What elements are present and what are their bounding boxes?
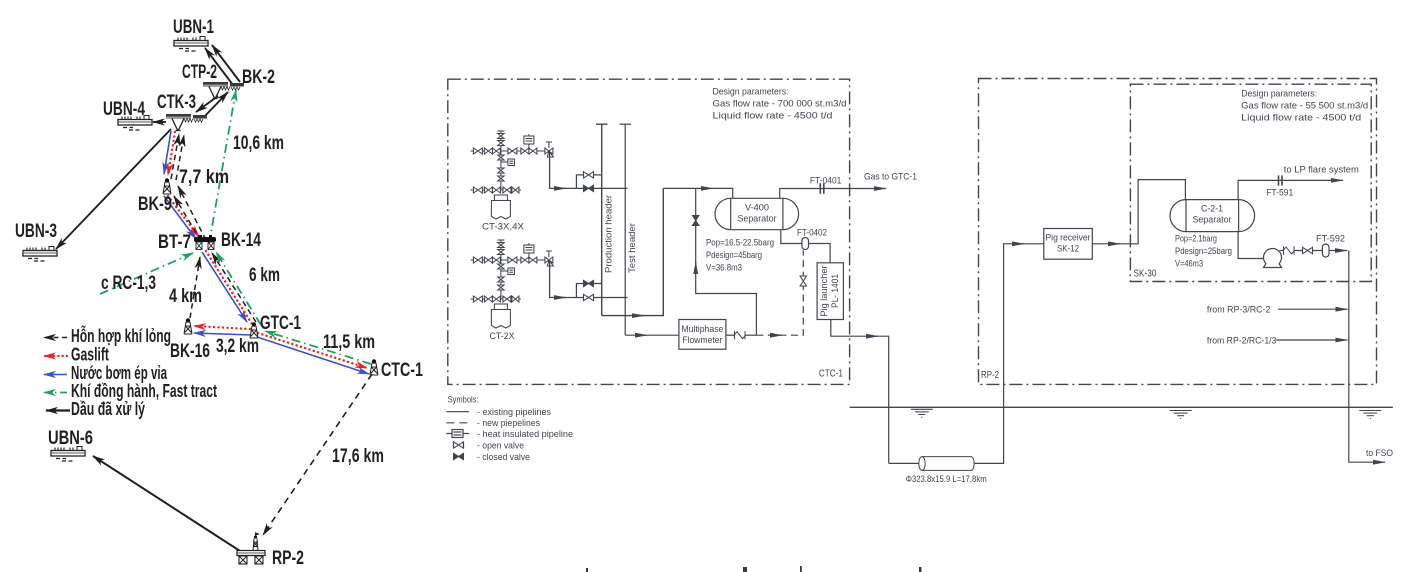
- wire multiphase return riser: [696, 188, 757, 335]
- legend open valve: [454, 442, 464, 448]
- node BK-16 derrick: [184, 318, 192, 334]
- wire BK-2 to UBN-1 line 2: [212, 45, 240, 82]
- svg-text:7,7 km: 7,7 km: [179, 167, 229, 188]
- svg-text:CTC-1: CTC-1: [381, 360, 423, 381]
- svg-text:UBN-6: UBN-6: [48, 428, 93, 449]
- wire BT-7 to GTC-1 red: [206, 251, 252, 324]
- svg-text:to LP flare system: to LP flare system: [1284, 165, 1359, 175]
- svg-text:CT-2X: CT-2X: [490, 331, 515, 341]
- wire pump discharge with break, valve, FT-592: [1280, 250, 1284, 252]
- svg-text:Symbols:: Symbols:: [448, 395, 479, 405]
- wire test header to multiphase flowmeter: [625, 334, 679, 336]
- valve closed on tree2 bypass: [584, 280, 594, 286]
- svg-text:from RP-3/RC-2: from RP-3/RC-2: [1207, 305, 1271, 315]
- wire BK-9 to CTK-3 dashed 2: [176, 135, 184, 180]
- svg-text:Φ323.8x15.9 L=17.8km: Φ323.8x15.9 L=17.8km: [906, 474, 987, 484]
- wire CTK-3 to UBN-4: [153, 121, 166, 123]
- wire CTK-3 to UBN-3: [56, 129, 171, 249]
- svg-text:C-2-1: C-2-1: [1201, 204, 1223, 214]
- FT-591 orifice: [1278, 175, 1280, 185]
- node GTC-1 derrick: [250, 322, 258, 338]
- wire BT-7 to BK-2 green 10.6km: [209, 90, 236, 244]
- svg-text:Separator: Separator: [1193, 215, 1232, 225]
- svg-text:Gas flow rate - 55 500 st.m3: Gas flow rate - 55 500 st.m3/d: [1241, 101, 1368, 111]
- node UBN-6 ship: [51, 447, 85, 462]
- christmas tree CT-2X: [471, 240, 554, 328]
- svg-text:Multiphase: Multiphase: [681, 324, 723, 334]
- wire GTC-1 to BK-16 red: [194, 326, 250, 329]
- legend closed valve: [454, 453, 464, 459]
- svg-text:6 km: 6 km: [249, 265, 280, 286]
- wire pig launcher outlet to sea line: [831, 320, 889, 464]
- svg-text:RP-2: RP-2: [981, 370, 999, 381]
- RP-2 battery limit box: [979, 79, 1377, 385]
- wire CTC-1 to GTC-1 green: [265, 331, 371, 364]
- svg-text:BK-2: BK-2: [242, 67, 275, 88]
- wire to FSO riser: [1349, 251, 1374, 463]
- water surface symbol 3: [1359, 411, 1381, 419]
- node BK-9 derrick: [163, 178, 171, 194]
- design parameters RP-2: [1241, 89, 1368, 123]
- node CTK-3 platform: [166, 114, 207, 131]
- valve closed on return riser: [693, 216, 699, 226]
- SK-30 battery limit box: [1130, 84, 1371, 281]
- wire BT-7 to BK-9 dashed 1: [174, 196, 201, 241]
- legend row 1: dashed black arrow: [44, 337, 67, 339]
- wire tree2 bypass stub: [576, 284, 601, 298]
- svg-text:Pop=2.1barg: Pop=2.1barg: [1175, 234, 1217, 244]
- svg-text:V=46m3: V=46m3: [1175, 259, 1203, 269]
- svg-text:SK-12: SK-12: [1057, 244, 1079, 254]
- svg-text:CT-3X,4X: CT-3X,4X: [482, 222, 524, 232]
- wire C-2-1 gas outlet to LP flare: [1238, 180, 1332, 199]
- svg-text:RP-2: RP-2: [272, 548, 304, 569]
- svg-text:Dầu đã xử lý: Dầu đã xử lý: [71, 398, 145, 419]
- sea level line: [850, 406, 1393, 408]
- wire BT-7 to GTC-1 blue: [202, 252, 247, 322]
- svg-text:Production header: Production header: [604, 195, 614, 273]
- wire new dashed pipeline to pig launcher: [756, 250, 803, 335]
- svg-text:FT-0402: FT-0402: [797, 228, 827, 238]
- svg-text:4 km: 4 km: [169, 286, 202, 307]
- symbols legend: [446, 412, 469, 460]
- svg-text:V-400: V-400: [745, 203, 769, 213]
- svg-text:CTC-1: CTC-1: [819, 369, 843, 380]
- wire subsea pipeline to RP-2: [889, 244, 1044, 464]
- svg-text:UBN-3: UBN-3: [15, 221, 57, 242]
- wire tree1 branch to headers: [550, 152, 628, 188]
- svg-text:FT-0401: FT-0401: [810, 176, 842, 186]
- svg-text:Liquid flow rate - 4500 t/d: Liquid flow rate - 4500 t/d: [1241, 113, 1361, 123]
- wire GTC-1 to CTC-1 red: [258, 333, 367, 368]
- node BT-7 / BK-14 platform: [194, 235, 216, 250]
- svg-text:Test header: Test header: [627, 223, 637, 273]
- svg-text:FT-591: FT-591: [1266, 188, 1293, 198]
- svg-text:FT-592: FT-592: [1316, 234, 1345, 244]
- wire tree1 bypass stub: [576, 175, 601, 189]
- svg-text:10,6 km: 10,6 km: [233, 133, 284, 154]
- wire BK-16 to BT-7 dashed 4km: [190, 257, 200, 318]
- wire CTC-1 to RP-2 dashed: [263, 374, 372, 535]
- node RP-2 rig: [237, 533, 265, 564]
- svg-text:BK-14: BK-14: [221, 230, 261, 251]
- valve open on dashed riser: [800, 276, 806, 286]
- svg-text:Gas flow rate - 700 000 st.m: Gas flow rate - 700 000 st.m3/d: [713, 99, 847, 109]
- water surface symbol 1: [911, 409, 933, 417]
- wire from RP-2/RC-1/3: [1276, 339, 1337, 341]
- FT-0401 orifice: [819, 183, 821, 194]
- wire CTK-3 to BK-2: [203, 92, 228, 118]
- svg-text:CTP-2: CTP-2: [182, 62, 217, 83]
- svg-text:Pdesign=25barg: Pdesign=25barg: [1175, 246, 1232, 256]
- legend row 4: green dash-dot arrow: [44, 392, 67, 394]
- node UBN-4 ship: [118, 116, 152, 131]
- legend row 3: blue arrow: [44, 374, 67, 376]
- legend row 5: solid black arrow: [46, 409, 70, 411]
- svg-text:UBN-1: UBN-1: [173, 17, 214, 38]
- design parameters CTC-1: [713, 87, 847, 121]
- subsea pipeline cylinder: [919, 457, 974, 471]
- legend new pipelines: [446, 422, 469, 424]
- svg-text:PL- 1401: PL- 1401: [830, 274, 840, 308]
- svg-text:SK-30: SK-30: [1134, 269, 1157, 280]
- wire GTC-1 to CTC-1 blue: [257, 337, 369, 374]
- svg-text:- existing pipelines: - existing pipelines: [477, 407, 551, 417]
- svg-text:Pdesign=45barg: Pdesign=45barg: [706, 250, 762, 260]
- pig receiver SK-12 box: [1044, 229, 1093, 260]
- multiphase flowmeter box: [679, 320, 726, 350]
- wire flowmeter outlet with break symbol: [726, 334, 734, 336]
- svg-text:11,5 km: 11,5 km: [323, 332, 375, 353]
- wire to V-400 inlet: [663, 188, 732, 198]
- valve open on tree1 bypass: [584, 172, 594, 178]
- caption fragment specks at bottom edge: [586, 566, 922, 572]
- svg-text:V=36.8m3: V=36.8m3: [706, 263, 742, 273]
- wire GTC-1 to BT-7 green: [216, 252, 261, 325]
- svg-text:- new piepelines: - new piepelines: [477, 418, 540, 428]
- node UBN-1 ship: [174, 37, 208, 52]
- wire RC-1,3 to BT-7 green: [100, 253, 193, 294]
- svg-text:c RC-1,3: c RC-1,3: [101, 273, 156, 294]
- wire BT-7 to BK-9 dashed 2: [178, 186, 206, 240]
- pig launcher PL-1401 box: [817, 263, 843, 320]
- svg-text:Pig launcher: Pig launcher: [819, 266, 829, 317]
- pump P: [1264, 249, 1282, 267]
- svg-text:BK-9: BK-9: [138, 194, 172, 215]
- node CTC-1 derrick: [370, 359, 378, 375]
- svg-text:BK-16: BK-16: [170, 341, 210, 362]
- svg-text:to FSO: to FSO: [1366, 448, 1393, 458]
- legend existing pipelines: [446, 411, 469, 413]
- V-400 separator vessel: [715, 198, 799, 229]
- svg-text:Flowmeter: Flowmeter: [682, 335, 722, 345]
- svg-text:GTC-1: GTC-1: [260, 313, 301, 334]
- wire BK-9 to CTK-3 dashed 1: [171, 134, 179, 179]
- svg-text:BT-7: BT-7: [158, 232, 191, 253]
- legend heat insulated pipeline: [446, 433, 469, 435]
- wire BK-2 to UBN-1 line 1: [205, 48, 233, 85]
- svg-text:- closed valve: - closed valve: [477, 452, 530, 462]
- wire RP-2 to UBN-6: [93, 456, 240, 551]
- svg-text:Separator: Separator: [738, 214, 777, 224]
- wire BK-9 to BT-7 red: [168, 196, 199, 237]
- valve open on tree2 main: [584, 294, 594, 300]
- svg-text:CTK-3: CTK-3: [157, 92, 196, 113]
- svg-text:Liquid flow rate - 4500 t/d: Liquid flow rate - 4500 t/d: [713, 111, 833, 121]
- wire from RP-3/RC-2: [1278, 308, 1337, 310]
- christmas tree CT-3X,4X: [471, 131, 554, 219]
- svg-text:17,6 km: 17,6 km: [332, 446, 384, 467]
- wire V-400 liquid outlet: [781, 230, 830, 263]
- CTC-1 battery limit box: [448, 79, 850, 384]
- valve closed on tree1 main: [584, 185, 594, 191]
- C-2-1 separator vessel: [1170, 200, 1255, 232]
- wire GTC-1 to BK-16 blue: [194, 333, 251, 335]
- wire V-400 gas outlet to GTC-1: [780, 189, 875, 199]
- wire CTP-2 to CTK-3: [196, 96, 218, 112]
- svg-text:Pop=16.5-22.5barg: Pop=16.5-22.5barg: [706, 238, 774, 248]
- wire pig receiver outlet to C-2-1: [1092, 180, 1185, 244]
- svg-text:- open valve: - open valve: [477, 440, 524, 450]
- node CTP-2 / BK-2 platform: [203, 82, 244, 99]
- production header: [596, 124, 663, 315]
- svg-text:Pig receiver: Pig receiver: [1046, 233, 1091, 243]
- svg-text:3,2 km: 3,2 km: [216, 336, 259, 357]
- svg-text:Design parameters:: Design parameters:: [1241, 89, 1317, 99]
- test header: [624, 124, 626, 335]
- wire BK-9 to BT-7 blue: [164, 196, 196, 239]
- svg-text:Gas to GTC-1: Gas to GTC-1: [864, 172, 917, 182]
- wire tree2 branch to headers: [550, 261, 628, 298]
- wire CTK-3 to BK-9 blue: [164, 131, 171, 174]
- legend row 2: red dotted arrow Gaslift: [44, 355, 67, 357]
- wire GTC-1 to BT-7 dashed: [212, 253, 256, 322]
- svg-text:- heat insulated pipeline: - heat insulated pipeline: [477, 429, 573, 439]
- svg-text:UBN-4: UBN-4: [103, 99, 145, 120]
- node UBN-3 ship: [23, 247, 57, 262]
- svg-text:Design parameters:: Design parameters:: [713, 87, 789, 97]
- wire CTK-3 to BK-9 red gaslift: [168, 132, 175, 175]
- FT-0402 instrument: [802, 238, 809, 250]
- svg-text:from RP-2/RC-1/3: from RP-2/RC-1/3: [1207, 336, 1277, 346]
- wire C-2-1 liquid outlet to pump: [1238, 232, 1263, 259]
- water surface symbol 2: [1170, 411, 1192, 419]
